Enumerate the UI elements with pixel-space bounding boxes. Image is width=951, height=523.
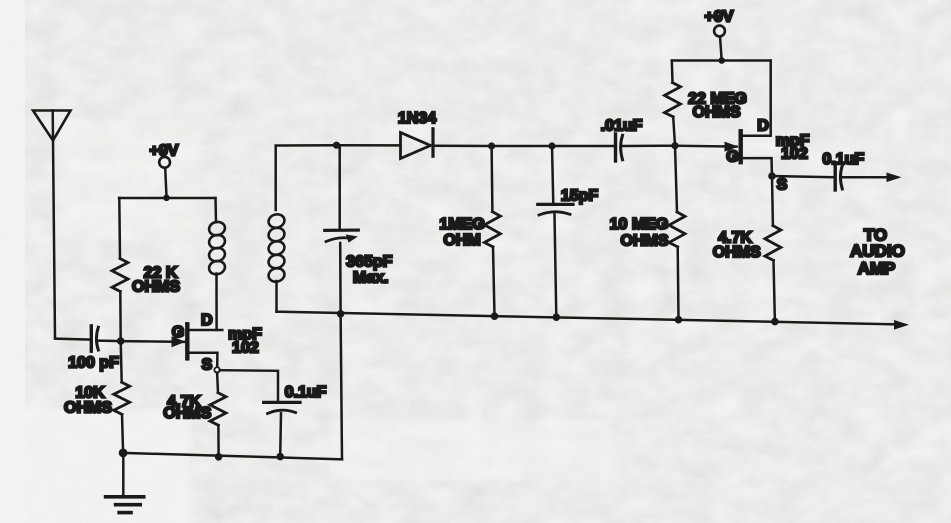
wire 10K to ground rail xyxy=(122,414,123,453)
node rail 4.7K stage 1 xyxy=(215,453,223,461)
svg-text:100 pF: 100 pF xyxy=(68,355,119,372)
wire detector line tank to diode xyxy=(337,144,401,147)
node rail 1MEG xyxy=(491,312,499,320)
svg-text:OHMS: OHMS xyxy=(621,232,669,249)
node S2 xyxy=(768,172,776,180)
svg-text:G: G xyxy=(172,324,184,341)
wire tank bottom to stage-1 ground rail xyxy=(341,314,342,460)
wire 10MEG to rail xyxy=(676,247,679,320)
transistor Q2 source lead xyxy=(743,158,772,173)
node A (1MEG top) xyxy=(488,142,495,149)
node +9V rail stage 1 xyxy=(163,195,170,202)
wire rail to 22MEG xyxy=(671,61,674,83)
svg-text:102: 102 xyxy=(232,339,259,356)
wire 100pF to gate node xyxy=(99,339,121,342)
transistor Q2 gate bar xyxy=(739,131,743,162)
resistor R1 22K OHMS xyxy=(112,259,128,292)
wire 1MEG to rail xyxy=(493,247,495,316)
lighter paper patches xyxy=(0,120,610,523)
diode D1 1N34 xyxy=(401,129,434,159)
wire tank top: coil L2 top to detector line xyxy=(276,145,337,210)
wire node B to C4 xyxy=(552,145,614,148)
capacitor C6 0.1uF output xyxy=(835,164,842,190)
wire node B to 15pF xyxy=(552,146,553,204)
svg-text:OHM: OHM xyxy=(443,232,480,249)
svg-text:S: S xyxy=(201,356,212,373)
wire node A to 1MEG xyxy=(490,146,493,212)
wire diode to node A xyxy=(435,144,492,147)
antenna xyxy=(33,111,71,141)
wire 4.7K to rail stage 1 xyxy=(217,425,220,457)
wire node C to 10MEG xyxy=(675,146,677,212)
transistor Q1 drain lead xyxy=(189,329,222,332)
svg-text:0.1uF: 0.1uF xyxy=(285,384,327,401)
wire L2 bottom to rail xyxy=(275,281,278,312)
wire 22K to gate node xyxy=(119,292,122,342)
resistor R4 22 MEG OHMS xyxy=(665,83,681,117)
resistor R2 10K OHMS xyxy=(114,382,130,414)
wire C4 to node C xyxy=(623,144,675,147)
wire +9V rail stage 2 xyxy=(672,59,771,62)
node rail 4.7K xyxy=(771,318,779,326)
svg-text:OHMS: OHMS xyxy=(163,405,211,422)
svg-text:102: 102 xyxy=(781,145,808,162)
svg-text:.01uF: .01uF xyxy=(601,117,643,134)
wire rail to 22K xyxy=(118,198,121,259)
wire 22MEG to node C xyxy=(673,117,675,146)
wire antenna to 100pF xyxy=(55,339,91,340)
resistor R3 1MEG OHM xyxy=(484,212,500,247)
wire antenna feed down xyxy=(53,141,55,338)
wire 15pF to rail xyxy=(555,215,557,318)
wire node C to Q2 gate xyxy=(675,144,737,147)
svg-text:D: D xyxy=(201,312,213,329)
resistor R7 4.7K OHMS stage 1 xyxy=(210,393,226,426)
wire L1 to Q1 drain xyxy=(215,274,218,331)
power +9V terminal stage 2 xyxy=(714,26,725,58)
wire tank cap bottom xyxy=(339,243,342,314)
power +9V terminal stage 1 xyxy=(159,157,170,195)
wire +9V rail stage 1 xyxy=(119,197,216,200)
capacitor C2 365pF variable xyxy=(325,230,359,243)
svg-text:OHMS: OHMS xyxy=(64,399,112,416)
wire S1 to C5 xyxy=(220,370,278,402)
svg-text:1MEG: 1MEG xyxy=(439,216,484,233)
wire rail to coil L1 xyxy=(214,198,217,222)
transistor Q2 drain lead xyxy=(743,61,771,136)
wire gate node to Q1 gate xyxy=(121,340,184,343)
wire C5 to rail xyxy=(279,413,282,456)
node +9V rail stage 2 xyxy=(718,57,725,64)
capacitor C5 0.1uF stage 1 xyxy=(264,402,300,413)
transistor Q1 gate bar xyxy=(185,324,189,358)
wire S2 to C6 xyxy=(772,176,834,177)
svg-text:D: D xyxy=(757,117,769,134)
node rail 10MEG xyxy=(675,316,683,324)
transistor Q1 mpF 102 gate arrow xyxy=(172,336,186,347)
node tank top xyxy=(333,142,340,149)
svg-text:Max.: Max. xyxy=(353,269,389,286)
node B (15pF top) xyxy=(548,142,555,149)
wire tank cap top xyxy=(338,145,341,230)
svg-text:365pF: 365pF xyxy=(346,253,392,270)
svg-text:S: S xyxy=(777,176,788,193)
svg-text:OHMS: OHMS xyxy=(693,104,741,121)
wire ground stem xyxy=(122,453,125,496)
svg-text:+9V: +9V xyxy=(705,8,734,25)
ground xyxy=(106,497,144,513)
wire 4.7K to rail xyxy=(774,260,775,321)
svg-text:10 MEG: 10 MEG xyxy=(610,216,669,233)
capacitor C4 .01uF xyxy=(616,134,623,161)
resistor R5 10 MEG OHMS xyxy=(669,212,685,247)
svg-text:15pF: 15pF xyxy=(561,187,599,204)
transistor Q2 mpF 102 gate arrow xyxy=(725,142,739,152)
node S1 open dot xyxy=(214,367,219,372)
arrow to audio amp xyxy=(887,173,902,183)
wire bottom rail right section xyxy=(277,312,897,325)
wire node A to node B xyxy=(492,145,552,148)
inductor L2 xyxy=(267,213,286,284)
node ground junction xyxy=(119,449,128,458)
node rail 15pF xyxy=(553,313,561,321)
svg-text:AUDIO: AUDIO xyxy=(850,242,905,261)
svg-text:G: G xyxy=(726,148,738,165)
node C (gate Q2) xyxy=(671,142,678,149)
inductor L1 xyxy=(208,220,227,276)
node rail C5 xyxy=(276,453,284,461)
svg-text:+9V: +9V xyxy=(150,142,179,159)
svg-text:0.1uF: 0.1uF xyxy=(822,151,864,168)
svg-text:OHMS: OHMS xyxy=(713,244,761,261)
node gate Q1 xyxy=(117,337,125,345)
arrow bottom rail out xyxy=(894,320,909,330)
capacitor C1 100 pF xyxy=(91,326,98,351)
wire S1 to 4.7K stage 1 xyxy=(216,373,219,393)
node tank bottom xyxy=(337,310,345,318)
wire bottom rail stage 1 xyxy=(123,453,342,459)
wire S2 to 4.7K xyxy=(771,176,774,226)
capacitor C3 15pF xyxy=(538,204,573,215)
svg-text:OHMS: OHMS xyxy=(132,278,180,295)
svg-text:1N34: 1N34 xyxy=(398,110,436,127)
transistor Q1 source lead xyxy=(189,353,217,368)
svg-text:AMP: AMP xyxy=(858,259,896,278)
wire C6 to audio arrow xyxy=(843,176,888,179)
resistor R6 4.7K OHMS xyxy=(765,226,781,261)
wire gate node to 10K xyxy=(121,341,122,382)
